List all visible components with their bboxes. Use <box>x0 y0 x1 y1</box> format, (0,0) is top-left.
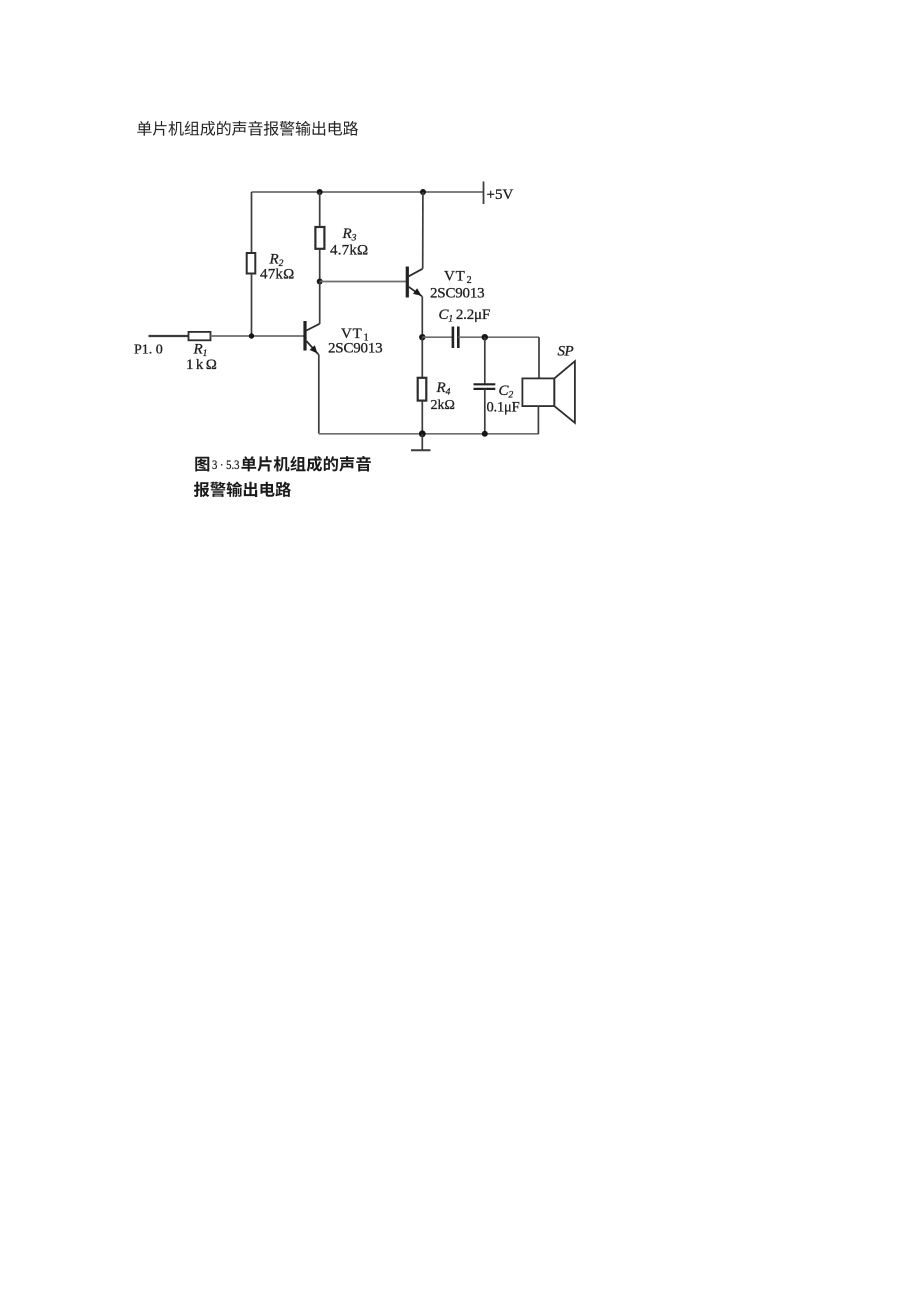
svg-text:C12.2μF: C12.2μF <box>439 307 491 325</box>
wire R4 bottom lead <box>421 401 423 434</box>
node R2/P1.0 junction <box>249 333 254 338</box>
value 0.1μF <box>487 400 520 416</box>
svg-text:2kΩ: 2kΩ <box>431 398 455 413</box>
wire C1 to speaker corner <box>458 336 539 338</box>
wire R4 top lead <box>421 337 423 378</box>
resistor R1 body <box>189 332 211 340</box>
capacitor C1 plates <box>453 327 458 349</box>
wire speaker bottom lead <box>537 406 539 434</box>
caption line 2 报警输出电路 <box>194 482 291 498</box>
value 2kΩ <box>431 398 455 413</box>
svg-text:SP: SP <box>558 344 574 360</box>
wire R3 top lead <box>319 192 321 227</box>
wire VT2 emitter down to node <box>421 296 423 337</box>
value 4.7kΩ <box>330 243 368 259</box>
svg-text:2SC9013: 2SC9013 <box>328 341 382 357</box>
resistor R4 body <box>418 378 427 401</box>
speaker SP <box>522 361 575 423</box>
node R3/VT1 collector/VT2 base <box>317 279 323 285</box>
node VT2 emitter/C1/R4 <box>419 334 425 340</box>
wire R1 to VT1 base <box>211 335 304 337</box>
wire P1.0 input lead <box>149 335 189 337</box>
label VT2 <box>444 269 472 287</box>
title text 单片机组成的声音报警输出电路 <box>137 121 358 136</box>
node rail/R3 junction <box>317 189 323 195</box>
wire speaker top lead <box>538 337 540 378</box>
wire bottom rail <box>319 433 539 435</box>
wire VT2 collector up to rail <box>422 192 424 269</box>
value 2SC9013 (VT2) <box>430 286 484 302</box>
label P1.0 <box>134 343 163 358</box>
svg-text:2SC9013: 2SC9013 <box>430 286 484 302</box>
node C2 bottom junction <box>482 431 488 437</box>
+5V supply terminal <box>484 182 514 205</box>
wire node to C1 <box>422 336 452 338</box>
wire C2 upper lead <box>484 337 486 383</box>
label R2 <box>269 252 284 270</box>
label C1 2.2μF <box>439 307 491 325</box>
value 2SC9013 (VT1) <box>328 341 382 357</box>
wire +5V top rail <box>252 191 484 193</box>
wire R3 bottom lead <box>319 249 321 282</box>
transistor VT1 <box>305 321 320 355</box>
svg-text:P1. 0: P1. 0 <box>134 343 163 358</box>
value 47kΩ <box>260 267 294 283</box>
wire C2 lower lead <box>484 389 486 434</box>
wire R2 bottom lead <box>251 274 253 337</box>
label SP <box>558 344 574 360</box>
label C2 <box>499 383 514 401</box>
ground <box>411 434 431 450</box>
svg-text:0.1μF: 0.1μF <box>487 400 520 416</box>
node ground junction <box>419 430 426 437</box>
wire node to VT2 base <box>320 281 406 283</box>
label R1 <box>193 342 208 360</box>
svg-text:1kΩ: 1kΩ <box>186 357 219 373</box>
svg-text:4.7kΩ: 4.7kΩ <box>330 243 368 259</box>
svg-text:47kΩ: 47kΩ <box>260 267 294 283</box>
label VT1 <box>341 326 369 344</box>
transistor VT2 <box>407 267 422 298</box>
label R4 <box>436 380 451 398</box>
caption line 1 图3·5.3单片机组成的声音 <box>195 456 371 472</box>
wire VT1 emitter down <box>318 355 320 434</box>
value 1kΩ <box>186 357 219 373</box>
resistor R3 body <box>315 227 324 249</box>
wire R2 top lead <box>251 192 253 253</box>
svg-text:+5V: +5V <box>487 187 514 203</box>
resistor R2 body <box>247 253 256 274</box>
label R3 <box>342 226 357 244</box>
wire VT1 collector up to node <box>319 282 321 325</box>
svg-text:3 · 5.3: 3 · 5.3 <box>212 457 240 472</box>
capacitor C2 plates <box>474 384 496 389</box>
node rail/VT2 collector junction <box>420 189 426 195</box>
node C2 top junction <box>482 334 488 340</box>
